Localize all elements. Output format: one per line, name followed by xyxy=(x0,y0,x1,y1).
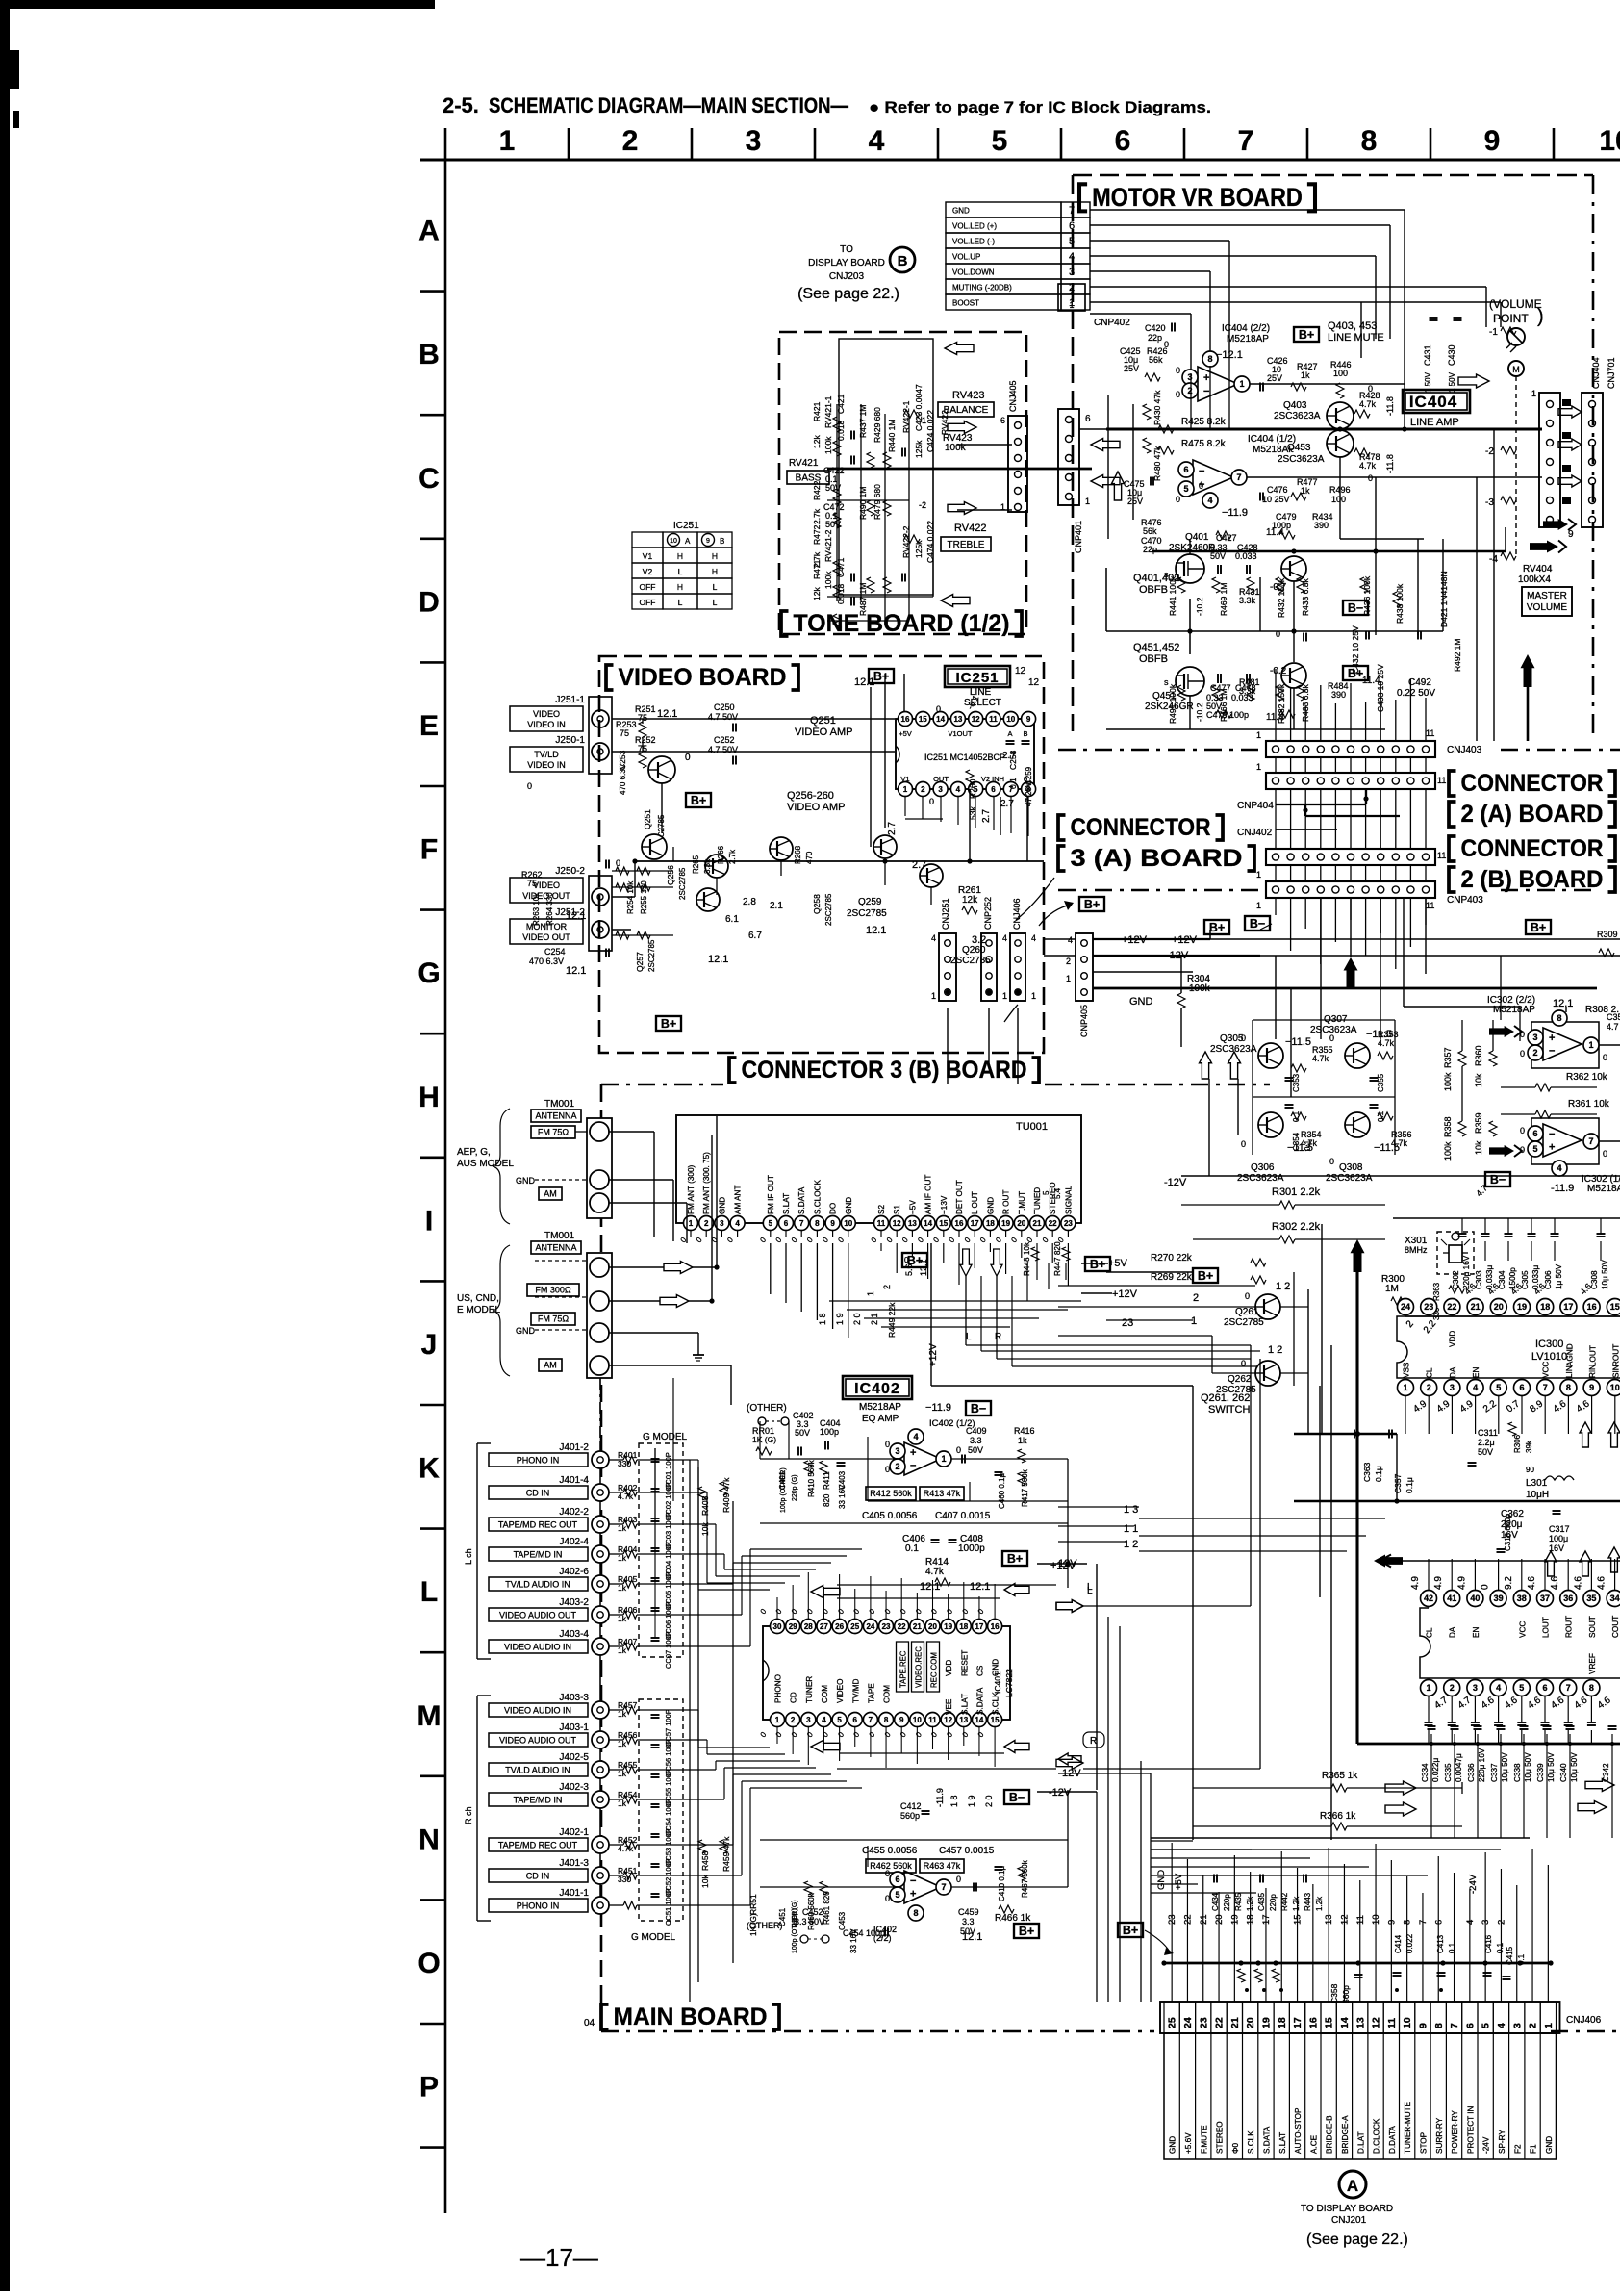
svg-text:0.1: 0.1 xyxy=(1448,1942,1456,1953)
svg-text:VEE: VEE xyxy=(945,1698,953,1715)
svg-text:A: A xyxy=(1007,729,1012,738)
svg-text:L: L xyxy=(678,598,683,607)
svg-text:23: 23 xyxy=(882,1622,891,1631)
svg-text:CONNECTOR 3 (B) BOARD: CONNECTOR 3 (B) BOARD xyxy=(742,1057,1027,1084)
svg-text:R463 47k: R463 47k xyxy=(924,1861,961,1871)
svg-text:220p (G): 220p (G) xyxy=(792,1474,798,1501)
svg-text:10 25V: 10 25V xyxy=(1262,495,1290,504)
svg-text:04: 04 xyxy=(584,2018,595,2028)
svg-text:C250: C250 xyxy=(714,702,735,712)
svg-text:B+: B+ xyxy=(1007,1552,1023,1566)
svg-text:B−: B− xyxy=(1348,601,1363,615)
svg-text:C415: C415 xyxy=(1506,1946,1514,1965)
svg-text:2.2μ: 2.2μ xyxy=(1478,1438,1495,1447)
svg-text:R306: R306 xyxy=(1513,1434,1522,1453)
svg-text:TM001: TM001 xyxy=(544,1099,575,1110)
svg-text:ANTENNA: ANTENNA xyxy=(535,1243,576,1253)
svg-text:+5.6V: +5.6V xyxy=(1184,2132,1193,2154)
svg-text:0.1: 0.1 xyxy=(1008,778,1018,789)
svg-text:GND: GND xyxy=(1156,1870,1167,1890)
svg-text:M5218AP: M5218AP xyxy=(1227,334,1269,344)
svg-text:TV/MD: TV/MD xyxy=(851,1678,860,1703)
svg-text:11: 11 xyxy=(1386,2018,1398,2028)
svg-text:(OTHER): (OTHER) xyxy=(747,1921,783,1930)
svg-text:CONNECTOR: CONNECTOR xyxy=(1461,835,1604,862)
svg-text:(OTHER): (OTHER) xyxy=(747,1403,787,1414)
svg-text:1: 1 xyxy=(499,125,516,157)
svg-text:12V: 12V xyxy=(1058,1558,1077,1569)
svg-text:4.7 5: 4.7 5 xyxy=(1607,1022,1620,1032)
svg-text:17: 17 xyxy=(975,1622,983,1631)
svg-text:1.2k: 1.2k xyxy=(1292,1896,1301,1911)
svg-text:J402-6: J402-6 xyxy=(559,1567,589,1577)
svg-text:19: 19 xyxy=(1001,1219,1010,1228)
svg-text:DISPLAY BOARD: DISPLAY BOARD xyxy=(808,258,885,268)
svg-text:23: 23 xyxy=(1198,2017,1209,2028)
svg-text:4.6: 4.6 xyxy=(1527,1576,1537,1590)
svg-text:(VOLUME: (VOLUME xyxy=(1489,297,1542,311)
svg-text:IC401: IC401 xyxy=(993,1671,1002,1694)
svg-text:9: 9 xyxy=(1417,2023,1429,2028)
svg-text:VDD: VDD xyxy=(945,1660,953,1676)
svg-text:ROUT: ROUT xyxy=(1612,1344,1620,1366)
svg-text:7: 7 xyxy=(1566,1683,1571,1693)
svg-text:16: 16 xyxy=(991,1622,1000,1631)
svg-text:R264 330: R264 330 xyxy=(545,892,554,926)
svg-text:1: 1 xyxy=(1031,991,1036,1001)
svg-text:22: 22 xyxy=(898,1622,906,1631)
svg-text:14: 14 xyxy=(1339,2017,1351,2028)
svg-text:-2: -2 xyxy=(1485,446,1494,457)
svg-text:J403-1: J403-1 xyxy=(559,1722,589,1733)
svg-text:+13V: +13V xyxy=(940,1195,949,1214)
svg-text:C435: C435 xyxy=(1257,1892,1266,1911)
svg-text:1k: 1k xyxy=(618,1614,627,1623)
svg-text:19: 19 xyxy=(944,1622,952,1631)
svg-text:C412: C412 xyxy=(900,1801,922,1811)
svg-text:J: J xyxy=(421,1329,438,1361)
svg-text:4.9: 4.9 xyxy=(1456,1576,1467,1590)
svg-text:D.CLOCK: D.CLOCK xyxy=(1373,2118,1381,2154)
svg-text:D.LAT: D.LAT xyxy=(1356,2131,1365,2154)
svg-text:0: 0 xyxy=(1368,384,1373,394)
svg-text:11: 11 xyxy=(1426,901,1434,910)
svg-text:0: 0 xyxy=(1329,1033,1334,1043)
svg-text:8: 8 xyxy=(1589,1683,1594,1693)
svg-text:RESET: RESET xyxy=(960,1650,969,1676)
svg-text:SURR-RY: SURR-RY xyxy=(1435,2117,1444,2154)
svg-text:470 6.3V: 470 6.3V xyxy=(619,763,627,795)
svg-text:6: 6 xyxy=(895,1875,899,1884)
svg-text:TM001: TM001 xyxy=(544,1231,575,1241)
svg-text:B: B xyxy=(898,253,908,269)
svg-text:Q306: Q306 xyxy=(1251,1162,1275,1173)
svg-text:2 1: 2 1 xyxy=(870,1313,879,1325)
svg-text:2: 2 xyxy=(895,1462,899,1471)
svg-text:C311: C311 xyxy=(1478,1428,1498,1438)
svg-text:J403-2: J403-2 xyxy=(559,1597,589,1608)
svg-text:6: 6 xyxy=(991,785,996,794)
svg-text:RV404: RV404 xyxy=(1523,564,1553,574)
svg-text:2SC3623A: 2SC3623A xyxy=(1237,1173,1284,1184)
svg-text:S.CLK: S.CLK xyxy=(1247,2130,1255,2154)
svg-text:R301 2.2k: R301 2.2k xyxy=(1272,1186,1321,1198)
svg-text:−11.9: −11.9 xyxy=(1222,507,1248,519)
svg-text:13: 13 xyxy=(908,1219,917,1228)
svg-text:-11.8: -11.8 xyxy=(1385,396,1395,416)
svg-text:D421 1N4148N: D421 1N4148N xyxy=(1439,571,1449,627)
svg-text:VOL.UP: VOL.UP xyxy=(952,253,980,262)
svg-text:Q261. 262: Q261. 262 xyxy=(1201,1392,1250,1404)
svg-text:1k: 1k xyxy=(618,1553,627,1563)
svg-text:1K (G): 1K (G) xyxy=(752,1435,776,1444)
svg-text:6: 6 xyxy=(1532,1129,1537,1138)
svg-text:220p: 220p xyxy=(1269,1894,1278,1911)
svg-text:4: 4 xyxy=(1496,1683,1501,1693)
svg-text:50V: 50V xyxy=(968,1445,983,1455)
svg-text:S.LAT: S.LAT xyxy=(782,1193,791,1214)
svg-text:3: 3 xyxy=(1532,1033,1537,1042)
svg-text:VOL.LED (+): VOL.LED (+) xyxy=(952,222,997,231)
svg-text:B+: B+ xyxy=(691,794,706,807)
svg-text:D.DATA: D.DATA xyxy=(1388,2126,1397,2154)
svg-text:2: 2 xyxy=(1532,1048,1537,1058)
svg-text:V1OUT: V1OUT xyxy=(948,729,972,738)
svg-text:CNJ701: CNJ701 xyxy=(1607,357,1616,389)
svg-text:19: 19 xyxy=(1517,1302,1527,1312)
svg-text:CNP401: CNP401 xyxy=(1074,521,1083,553)
svg-text:1k: 1k xyxy=(1301,370,1310,380)
svg-text:C420: C420 xyxy=(1145,323,1166,333)
svg-text:9.2: 9.2 xyxy=(1504,1576,1514,1590)
svg-text:+: + xyxy=(910,1447,916,1459)
svg-text:-24V: -24V xyxy=(1482,2136,1491,2154)
svg-text:OBFB: OBFB xyxy=(1139,584,1168,596)
svg-text:RV421-2: RV421-2 xyxy=(823,529,833,562)
svg-text:2: 2 xyxy=(1528,2023,1539,2028)
svg-text:(See page 22.): (See page 22.) xyxy=(1306,2232,1408,2248)
svg-text:41: 41 xyxy=(1447,1594,1456,1603)
svg-text:VIDEO AUDIO OUT: VIDEO AUDIO OUT xyxy=(499,1736,577,1746)
svg-text:1: 1 xyxy=(1085,497,1090,506)
svg-text:19: 19 xyxy=(1260,2017,1272,2028)
svg-text:Q251: Q251 xyxy=(810,715,836,727)
svg-text:1: 1 xyxy=(1256,901,1261,910)
svg-text:COUT: COUT xyxy=(1611,1616,1620,1638)
svg-text:23: 23 xyxy=(1424,1302,1433,1312)
svg-text:2 (A) BOARD: 2 (A) BOARD xyxy=(1461,801,1604,828)
svg-text:3: 3 xyxy=(1450,1383,1455,1392)
svg-text:R437 1M: R437 1M xyxy=(858,405,868,439)
svg-text:TV/LD AUDIO IN: TV/LD AUDIO IN xyxy=(505,1766,570,1775)
svg-text:10: 10 xyxy=(670,538,677,545)
svg-text:6.1: 6.1 xyxy=(725,914,739,925)
svg-text:-3: -3 xyxy=(1485,497,1494,508)
svg-text:0: 0 xyxy=(1241,1033,1246,1043)
svg-text:0: 0 xyxy=(1164,340,1169,349)
svg-text:R442: R442 xyxy=(1280,1892,1289,1911)
svg-text:5: 5 xyxy=(837,1716,842,1724)
svg-text:OFF: OFF xyxy=(640,582,656,592)
svg-text:R360: R360 xyxy=(1474,1045,1483,1066)
svg-text:12.1: 12.1 xyxy=(970,1581,990,1593)
svg-text:LIN: LIN xyxy=(1565,1365,1574,1378)
svg-text:R430 47k: R430 47k xyxy=(1152,390,1162,425)
svg-text:1: 1 xyxy=(941,1454,946,1464)
svg-text:IC251 MC14052BCP: IC251 MC14052BCP xyxy=(924,753,1005,762)
svg-text:10μ 50V: 10μ 50V xyxy=(1570,1752,1579,1782)
svg-text:3: 3 xyxy=(1473,1683,1478,1693)
svg-text:Q258: Q258 xyxy=(812,894,822,914)
svg-text:L: L xyxy=(678,567,683,576)
svg-text:2SC2785: 2SC2785 xyxy=(824,893,833,926)
svg-text:CD: CD xyxy=(790,1692,798,1703)
svg-text:Q403: Q403 xyxy=(1283,400,1307,411)
svg-text:EQ AMP: EQ AMP xyxy=(862,1414,899,1424)
svg-text:C338: C338 xyxy=(1513,1763,1522,1782)
svg-text:5: 5 xyxy=(1519,1683,1524,1693)
svg-text:0.022μ: 0.022μ xyxy=(1431,1758,1440,1782)
svg-text:25V: 25V xyxy=(1127,497,1143,506)
svg-text:B+: B+ xyxy=(1299,328,1314,342)
svg-text:AM ANT: AM ANT xyxy=(734,1186,743,1214)
svg-text:Q451,452: Q451,452 xyxy=(1133,642,1179,653)
svg-text:1: 1 xyxy=(1069,300,1074,310)
svg-text:SOUT: SOUT xyxy=(1588,1616,1597,1638)
svg-text:56k: 56k xyxy=(1143,526,1157,536)
svg-text:3.3: 3.3 xyxy=(970,1436,982,1445)
svg-text:4: 4 xyxy=(1496,2023,1507,2028)
svg-text:TAPE: TAPE xyxy=(867,1683,875,1703)
svg-text:4: 4 xyxy=(735,1219,740,1228)
svg-text:0.1μ: 0.1μ xyxy=(1374,1466,1383,1482)
svg-text:H: H xyxy=(677,551,683,561)
svg-text:1k: 1k xyxy=(618,1739,627,1748)
svg-text:T.MUT: T.MUT xyxy=(1018,1191,1026,1214)
svg-text:100μ: 100μ xyxy=(1549,1534,1568,1543)
svg-text:R462 560k: R462 560k xyxy=(870,1861,912,1871)
svg-text:220p: 220p xyxy=(1223,1894,1231,1911)
svg-text:12.1: 12.1 xyxy=(708,954,728,965)
svg-text:PHONO IN: PHONO IN xyxy=(517,1456,560,1466)
svg-text:R466 1M: R466 1M xyxy=(1219,689,1228,723)
svg-text:B+: B+ xyxy=(1198,1269,1213,1283)
svg-text:1: 1 xyxy=(1256,870,1261,880)
svg-text:TAPE/MD IN: TAPE/MD IN xyxy=(514,1550,563,1560)
svg-text:1000p: 1000p xyxy=(958,1543,985,1554)
svg-text:125k: 125k xyxy=(914,440,924,458)
svg-text:GND: GND xyxy=(516,1176,536,1186)
svg-text:1: 1 xyxy=(1256,730,1261,740)
svg-text:−11.5: −11.5 xyxy=(1285,1036,1311,1048)
svg-text:): ) xyxy=(1537,306,1544,327)
svg-text:TAPE/MD REC OUT: TAPE/MD REC OUT xyxy=(498,1520,578,1530)
svg-text:33 16V: 33 16V xyxy=(838,1484,847,1509)
svg-text:2.7: 2.7 xyxy=(1002,751,1016,761)
svg-text:8: 8 xyxy=(884,1716,889,1724)
svg-text:DO: DO xyxy=(829,1203,838,1214)
svg-text:1.2k: 1.2k xyxy=(1246,1896,1254,1911)
svg-text:0: 0 xyxy=(885,1440,890,1449)
svg-text:C334: C334 xyxy=(1421,1763,1430,1782)
svg-text:3 (A) BOARD: 3 (A) BOARD xyxy=(1071,845,1243,872)
svg-text:CNJ402: CNJ402 xyxy=(1237,828,1273,838)
svg-text:IC404 (2/2): IC404 (2/2) xyxy=(1222,323,1270,334)
svg-text:AM IF OUT: AM IF OUT xyxy=(924,1175,933,1214)
svg-text:6: 6 xyxy=(853,1716,858,1724)
svg-text:0: 0 xyxy=(616,858,620,868)
svg-text:0.1μ: 0.1μ xyxy=(1405,1477,1414,1493)
svg-text:C336: C336 xyxy=(1467,1763,1476,1782)
svg-text:22p: 22p xyxy=(1148,333,1162,343)
svg-text:GND: GND xyxy=(986,1197,995,1214)
svg-text:EN: EN xyxy=(1472,1367,1481,1378)
svg-text:12.1: 12.1 xyxy=(854,676,874,688)
svg-text:C317: C317 xyxy=(1549,1524,1570,1534)
svg-text:42: 42 xyxy=(1424,1594,1433,1603)
svg-text:100p: 100p xyxy=(820,1427,839,1437)
svg-text:CNP405: CNP405 xyxy=(1079,1005,1089,1037)
svg-text:C254: C254 xyxy=(544,947,566,957)
svg-text:1.2k: 1.2k xyxy=(1315,1896,1324,1911)
svg-text:VCC: VCC xyxy=(1542,1362,1551,1378)
svg-text:CNJ201: CNJ201 xyxy=(1331,2215,1367,2226)
svg-text:2: 2 xyxy=(1069,287,1074,296)
svg-text:Q256: Q256 xyxy=(666,865,675,885)
svg-text:GND: GND xyxy=(845,1197,853,1214)
svg-text:CL: CL xyxy=(1426,1627,1434,1638)
svg-text:11: 11 xyxy=(877,1219,886,1228)
svg-text:TAPE/MD IN: TAPE/MD IN xyxy=(514,1796,563,1805)
svg-text:2SC2785: 2SC2785 xyxy=(678,867,687,900)
svg-text:MASTER: MASTER xyxy=(1527,591,1567,601)
svg-text:GND: GND xyxy=(718,1197,726,1214)
svg-text:B+: B+ xyxy=(1084,898,1100,911)
svg-text:0: 0 xyxy=(527,781,532,791)
svg-text:O: O xyxy=(418,1948,440,1979)
svg-text:J250-1: J250-1 xyxy=(555,735,585,746)
svg-text:+5V: +5V xyxy=(899,729,912,738)
svg-text:REC.COM: REC.COM xyxy=(930,1652,939,1688)
svg-text:J403-4: J403-4 xyxy=(559,1629,589,1640)
svg-text:8: 8 xyxy=(1207,354,1212,364)
svg-text:CNJ251: CNJ251 xyxy=(941,898,950,930)
svg-text:1 3: 1 3 xyxy=(1124,1504,1138,1516)
svg-text:14: 14 xyxy=(975,1716,983,1724)
svg-text:0.1: 0.1 xyxy=(1377,1110,1385,1122)
svg-text:11: 11 xyxy=(1437,851,1446,860)
svg-text:VDD: VDD xyxy=(1449,1331,1457,1347)
svg-text:FM 300Ω: FM 300Ω xyxy=(535,1286,571,1295)
svg-text:RIN: RIN xyxy=(1588,1365,1597,1378)
svg-text:-12V: -12V xyxy=(1164,1177,1187,1188)
svg-text:9: 9 xyxy=(899,1716,904,1724)
svg-text:18: 18 xyxy=(959,1622,968,1631)
svg-text:5: 5 xyxy=(1183,484,1188,494)
svg-text:24: 24 xyxy=(1401,1302,1410,1312)
svg-text:+: + xyxy=(1203,372,1209,384)
svg-text:13: 13 xyxy=(1354,2017,1366,2028)
svg-text:M: M xyxy=(418,1700,442,1732)
svg-text:RR51: RR51 xyxy=(748,1894,758,1915)
svg-text:+: + xyxy=(1549,1033,1555,1044)
svg-text:0: 0 xyxy=(1241,1139,1246,1149)
svg-text:IC404: IC404 xyxy=(1409,393,1457,411)
svg-text:TU001: TU001 xyxy=(1016,1121,1048,1133)
svg-text:CS: CS xyxy=(975,1665,984,1676)
svg-text:20: 20 xyxy=(1245,2017,1256,2028)
svg-text:1: 1 xyxy=(1002,991,1007,1001)
svg-text:R365 1k: R365 1k xyxy=(1322,1771,1358,1781)
svg-text:1: 1 xyxy=(1588,1040,1593,1050)
svg-text:0.033: 0.033 xyxy=(1235,551,1257,561)
svg-text:3: 3 xyxy=(806,1716,811,1724)
svg-text:DA: DA xyxy=(1449,1626,1457,1638)
svg-text:100k: 100k xyxy=(1443,1141,1453,1161)
svg-text:4.9: 4.9 xyxy=(1433,1576,1444,1590)
svg-text:100kX4: 100kX4 xyxy=(1518,574,1551,585)
svg-text:7: 7 xyxy=(941,1882,946,1892)
svg-text:4.6: 4.6 xyxy=(1597,1576,1607,1590)
svg-text:AM: AM xyxy=(544,1189,557,1199)
svg-text:1: 1 xyxy=(775,1716,780,1724)
svg-text:DA: DA xyxy=(1449,1366,1457,1378)
svg-text:J251-1: J251-1 xyxy=(555,695,585,705)
svg-text:R480 47k: R480 47k xyxy=(1152,446,1162,481)
svg-text:S2: S2 xyxy=(877,1205,886,1214)
svg-text:VREF: VREF xyxy=(1588,1653,1597,1674)
svg-text:12k: 12k xyxy=(962,895,978,906)
svg-text:R309: R309 xyxy=(1597,930,1618,939)
svg-text:10μ 50V: 10μ 50V xyxy=(1501,1752,1509,1782)
svg-text:AEP, G,: AEP, G, xyxy=(457,1147,491,1158)
svg-text:SIGNAL: SIGNAL xyxy=(1064,1186,1073,1214)
svg-text:J403-3: J403-3 xyxy=(559,1693,589,1703)
svg-text:16: 16 xyxy=(1307,2017,1319,2028)
svg-text:+12V: +12V xyxy=(1112,1288,1138,1300)
svg-text:21: 21 xyxy=(1229,2017,1241,2028)
svg-text:FM ANT (300): FM ANT (300) xyxy=(687,1164,696,1214)
svg-text:1: 1 xyxy=(1066,974,1071,983)
svg-text:VIDEO.REC: VIDEO.REC xyxy=(915,1646,924,1688)
svg-text:4.7k: 4.7k xyxy=(1378,1038,1395,1048)
svg-text:23: 23 xyxy=(1122,1317,1133,1329)
svg-text:CONNECTOR: CONNECTOR xyxy=(1071,814,1211,841)
svg-text:25V: 25V xyxy=(1124,364,1139,373)
svg-text:R421: R421 xyxy=(812,401,822,421)
svg-text:18: 18 xyxy=(1277,2017,1288,2028)
svg-text:1k: 1k xyxy=(618,1709,627,1719)
svg-text:V2: V2 xyxy=(643,567,653,576)
svg-text:AUTO-STOP: AUTO-STOP xyxy=(1294,2107,1303,2154)
svg-text:B+: B+ xyxy=(1531,921,1546,934)
svg-text:R425 8.2k: R425 8.2k xyxy=(1181,417,1227,427)
svg-text:FM 75Ω: FM 75Ω xyxy=(538,1314,570,1324)
svg-text:-11.8: -11.8 xyxy=(1385,454,1395,473)
svg-text:J402-1: J402-1 xyxy=(559,1827,589,1838)
svg-text:R269 22k: R269 22k xyxy=(1151,1272,1193,1283)
svg-text:J401-4: J401-4 xyxy=(559,1475,589,1486)
svg-text:2 0: 2 0 xyxy=(852,1313,862,1325)
svg-text:POWER-RY: POWER-RY xyxy=(1451,2110,1459,2154)
svg-text:0: 0 xyxy=(885,1894,890,1903)
svg-text:1: 1 xyxy=(1403,1383,1407,1392)
svg-text:−: − xyxy=(1203,386,1209,397)
svg-text:1: 1 xyxy=(1426,1683,1430,1693)
svg-text:IC251: IC251 xyxy=(673,521,699,531)
svg-text:1: 1 xyxy=(1256,762,1261,772)
svg-text:12.1: 12.1 xyxy=(566,965,586,977)
